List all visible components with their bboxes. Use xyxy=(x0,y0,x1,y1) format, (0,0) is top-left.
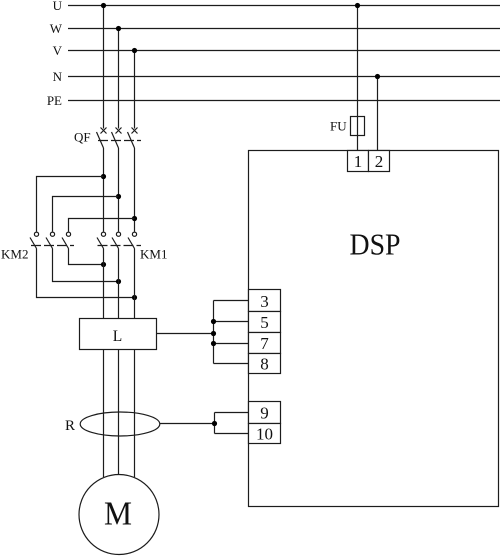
wire phase-B L to motor xyxy=(118,350,120,476)
breaker QF pole 3 xyxy=(128,128,138,149)
terminal 3 xyxy=(249,290,281,312)
contactor KM1 pole 2 xyxy=(112,232,121,248)
terminal 5 xyxy=(249,312,281,333)
breaker QF pole 1 xyxy=(97,128,107,149)
wire L output to terminal bus xyxy=(157,333,214,335)
svg-text:W: W xyxy=(50,21,63,36)
node W (rail W) xyxy=(50,21,500,36)
wire N rail to terminal 2 xyxy=(377,77,379,151)
junction dot V/phase-C xyxy=(132,48,137,53)
terminal 2 xyxy=(369,151,390,172)
terminal 10 xyxy=(249,424,281,444)
contactor KM2 pole 3 xyxy=(62,232,71,248)
svg-text:FU: FU xyxy=(330,119,347,134)
breaker QF pole 2 xyxy=(112,128,122,149)
svg-text:M: M xyxy=(104,496,132,533)
wire phase-B KM1 to L xyxy=(118,249,120,319)
wire phase-C KM1 to L xyxy=(134,249,136,319)
contactor KM1 pole 3 xyxy=(128,232,137,248)
node N (rail N) xyxy=(53,69,500,84)
junction dot U/FU xyxy=(355,3,360,8)
svg-text:U: U xyxy=(53,0,63,13)
junction dot node A2 xyxy=(101,262,106,267)
wire phase-A L to motor xyxy=(103,350,105,478)
svg-text:KM1: KM1 xyxy=(140,247,167,262)
wire phase-A drop from U to QF xyxy=(103,6,105,129)
wire KM2 pole1 bottom to node C2 xyxy=(37,249,135,298)
wire phase-B QF to KM1 xyxy=(118,148,120,232)
wire phase-B drop from W to QF xyxy=(118,29,120,129)
junction dot node B2 xyxy=(116,279,121,284)
fuse FU xyxy=(330,117,365,136)
svg-text:PE: PE xyxy=(47,93,62,108)
junction dot node C1 xyxy=(132,216,137,221)
node V (rail V) xyxy=(53,43,500,58)
svg-text:KM2: KM2 xyxy=(1,247,28,262)
motor M1 xyxy=(79,475,159,555)
contactor KM2 pole 2 xyxy=(46,232,55,248)
junction dot U/phase-A xyxy=(101,3,106,8)
svg-text:QF: QF xyxy=(74,130,91,145)
terminal 1 xyxy=(348,151,369,172)
svg-text:L: L xyxy=(113,328,122,345)
svg-text:N: N xyxy=(53,69,63,84)
wire phase-C drop from V to QF xyxy=(134,51,136,129)
junction dot N/terminal2 xyxy=(375,74,380,79)
wire B1 to KM2 pole2 top xyxy=(53,197,119,232)
svg-text:3: 3 xyxy=(260,292,269,311)
junction dot bus/7 xyxy=(211,341,216,346)
wire A1 to KM2 pole1 top xyxy=(37,177,104,232)
wire R output to terminal bus 9-10 xyxy=(160,423,215,425)
svg-text:R: R xyxy=(65,418,75,434)
svg-text:V: V xyxy=(53,43,63,58)
wire phase-A QF to KM1 xyxy=(103,148,105,232)
junction dot bus/L xyxy=(211,331,216,336)
node PE (rail PE) xyxy=(47,93,500,108)
inductor L xyxy=(80,319,157,350)
wire phase-A KM1 to L xyxy=(103,249,105,319)
wire phase-C L to motor xyxy=(134,350,136,478)
contactor KM2 pole 1 xyxy=(30,232,39,248)
wire phase-C QF to KM1 xyxy=(134,148,136,232)
wire U rail to FU and terminal 1 xyxy=(357,6,359,151)
junction dot node A1 xyxy=(101,174,106,179)
block DSP U1 xyxy=(249,151,499,507)
wire terminal bus 3-5-7-8 xyxy=(214,301,249,364)
terminal 7 xyxy=(249,333,281,354)
svg-text:2: 2 xyxy=(375,152,384,171)
svg-text:10: 10 xyxy=(256,425,273,444)
svg-text:5: 5 xyxy=(260,313,269,332)
junction dot node C2 xyxy=(132,295,137,300)
junction dot node B1 xyxy=(116,194,121,199)
contactor KM1 pole 1 xyxy=(97,232,106,248)
wire KM2 pole2 bottom to node B2 xyxy=(53,249,119,282)
KM2 linkage dashed line xyxy=(31,245,74,247)
junction dot bus/R xyxy=(212,421,217,426)
terminal 8 xyxy=(249,354,281,374)
QF linkage dashed line xyxy=(98,140,141,142)
svg-text:1: 1 xyxy=(354,152,363,171)
junction dot bus/5 xyxy=(211,319,216,324)
KM1 linkage dashed line xyxy=(98,245,142,247)
sensor ring R xyxy=(65,412,160,436)
wire C1 to KM2 pole3 top xyxy=(69,219,135,232)
svg-text:8: 8 xyxy=(260,355,269,374)
wire terminal bus 9-10 xyxy=(215,413,249,434)
node U (rail U) xyxy=(53,0,500,13)
terminal 9 xyxy=(249,402,281,424)
svg-text:DSP: DSP xyxy=(350,227,401,262)
junction dot W/phase-B xyxy=(116,26,121,31)
svg-text:7: 7 xyxy=(260,334,269,353)
svg-text:9: 9 xyxy=(260,404,269,423)
wire KM2 pole3 bottom to node A2 xyxy=(69,249,104,265)
